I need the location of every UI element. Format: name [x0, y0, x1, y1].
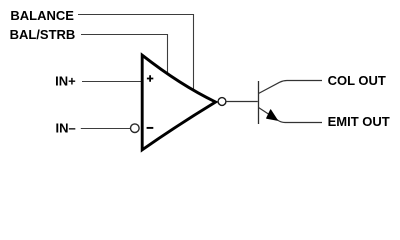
svg-text:IN–: IN– — [56, 121, 76, 136]
wire IN+ to op-amp — [82, 81, 141, 83]
svg-text:IN+: IN+ — [55, 74, 76, 89]
op-amp output bubble — [218, 98, 226, 106]
svg-text:BAL/STRB: BAL/STRB — [10, 27, 76, 42]
svg-text:COL OUT: COL OUT — [328, 73, 386, 88]
wire BAL/STRB to op-amp top — [81, 35, 168, 73]
plus sign (non-inverting input) — [147, 75, 153, 81]
wire IN- to inverting bubble — [81, 128, 131, 130]
transistor Q1 base bar — [258, 81, 260, 124]
transistor Q1 emitter arrowhead — [267, 110, 278, 121]
svg-text:EMIT OUT: EMIT OUT — [328, 114, 390, 129]
wire BALANCE to op-amp top — [78, 15, 194, 90]
op-amp U1 triangle — [142, 55, 215, 150]
minus sign (inverting input) — [147, 127, 154, 129]
svg-text:BALANCE: BALANCE — [10, 8, 74, 23]
inverting input bubble — [131, 124, 140, 133]
wire output bubble to transistor base — [226, 101, 258, 103]
transistor Q1 emitter diagonal — [259, 108, 323, 123]
transistor Q1 collector diagonal — [259, 81, 323, 94]
